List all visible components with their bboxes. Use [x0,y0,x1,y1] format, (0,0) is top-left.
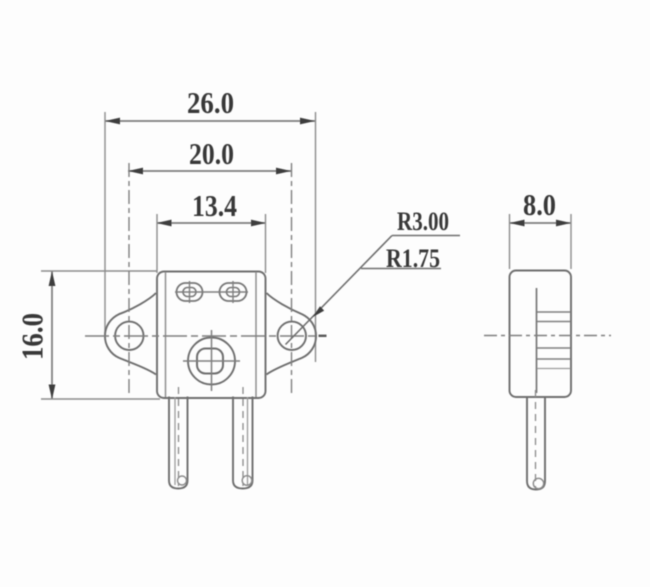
left slot outer obround [177,283,203,301]
left pin centerline [178,387,180,486]
dimension 16.0 top arrow [49,271,56,286]
dimension 16.0 bottom extension line [41,398,160,400]
dimension 16.0 line [51,271,53,400]
R3.00 shelf line [392,235,460,237]
left ear outline [105,293,156,375]
dimension 13.4 line [157,222,267,224]
dimension 16.0 top extension line [41,270,157,272]
left ear hole [115,322,143,350]
side view body outline [510,271,572,398]
central boss outer circle [188,338,235,385]
front view body outline [157,272,266,399]
left hole vertical centerline / 20.0 extension [128,163,130,397]
slot horizontal centerline [175,291,248,293]
side pin tip circle [533,478,543,488]
right ear outline [267,293,317,375]
dimension 8.0 line [510,222,572,224]
side pin centerline [535,390,537,487]
dimension 20.0 line [128,170,291,172]
right pin inner line [247,397,249,485]
side view rib line 3 [537,347,571,349]
R1.75 shelf line [361,268,441,270]
dimension 16.0 bottom arrow [49,385,56,400]
dimension 20.0 left arrow [128,168,143,175]
dimension 26.0 line [105,120,315,122]
radius leader arrow [313,306,325,317]
side view rib line 1 [537,311,571,313]
radius leader line [286,236,393,345]
dimension 13.4 left extension line [156,214,158,273]
left pin outline [169,397,188,489]
left pin inner line [174,397,176,485]
side view rib line 2 [537,321,571,323]
central boss horizontal centerline [183,360,240,362]
side pin outline [527,397,545,490]
right slot vertical centerline [232,281,234,303]
svg-text:R3.00: R3.00 [397,207,449,236]
right ear hole [278,322,306,350]
front view left rounded-edge tangent line [165,272,167,397]
side view inner vertical line [536,288,538,393]
right hole vertical centerline / 20.0 extension [291,163,293,397]
svg-text:13.4: 13.4 [192,188,237,223]
svg-text:R1.75: R1.75 [386,244,440,273]
side view rib line 4 [537,358,571,360]
right pin tip circle [242,476,252,486]
side view horizontal centerline [484,335,611,337]
dimension 26.0 right arrow [300,118,315,125]
central hole rounded square [197,349,223,374]
dimension 8.0 left arrow [510,220,525,227]
right slot inner obround [227,288,240,297]
svg-text:8.0: 8.0 [523,187,556,222]
side view rib line 5 [537,368,571,370]
dimension 13.4 left arrow [157,220,172,227]
ear holes horizontal centerline [85,335,326,337]
svg-text:16.0: 16.0 [15,313,50,360]
ear centerline end tick [319,335,327,337]
front view right rounded-edge tangent line [255,272,257,397]
central boss vertical centerline [211,330,213,391]
dimension 8.0 right arrow [556,220,571,227]
dimension 26.0 right extension line [315,112,317,362]
right pin centerline [242,387,244,486]
right pin outline [233,397,253,489]
svg-text:20.0: 20.0 [189,136,234,171]
dimension 8.0 right extension line [570,214,572,269]
right slot outer obround [220,283,247,301]
svg-text:26.0: 26.0 [187,85,234,120]
dimension 8.0 left extension line [509,214,511,269]
left slot inner obround [183,288,196,297]
dimension 13.4 right extension line [265,214,267,273]
dimension 20.0 right arrow [276,168,291,175]
left pin tip circle [178,476,187,485]
dimension 26.0 left extension line [104,112,106,334]
left slot vertical centerline [189,281,191,303]
dimension 13.4 right arrow [251,220,266,227]
dimension 26.0 left arrow [105,118,120,125]
